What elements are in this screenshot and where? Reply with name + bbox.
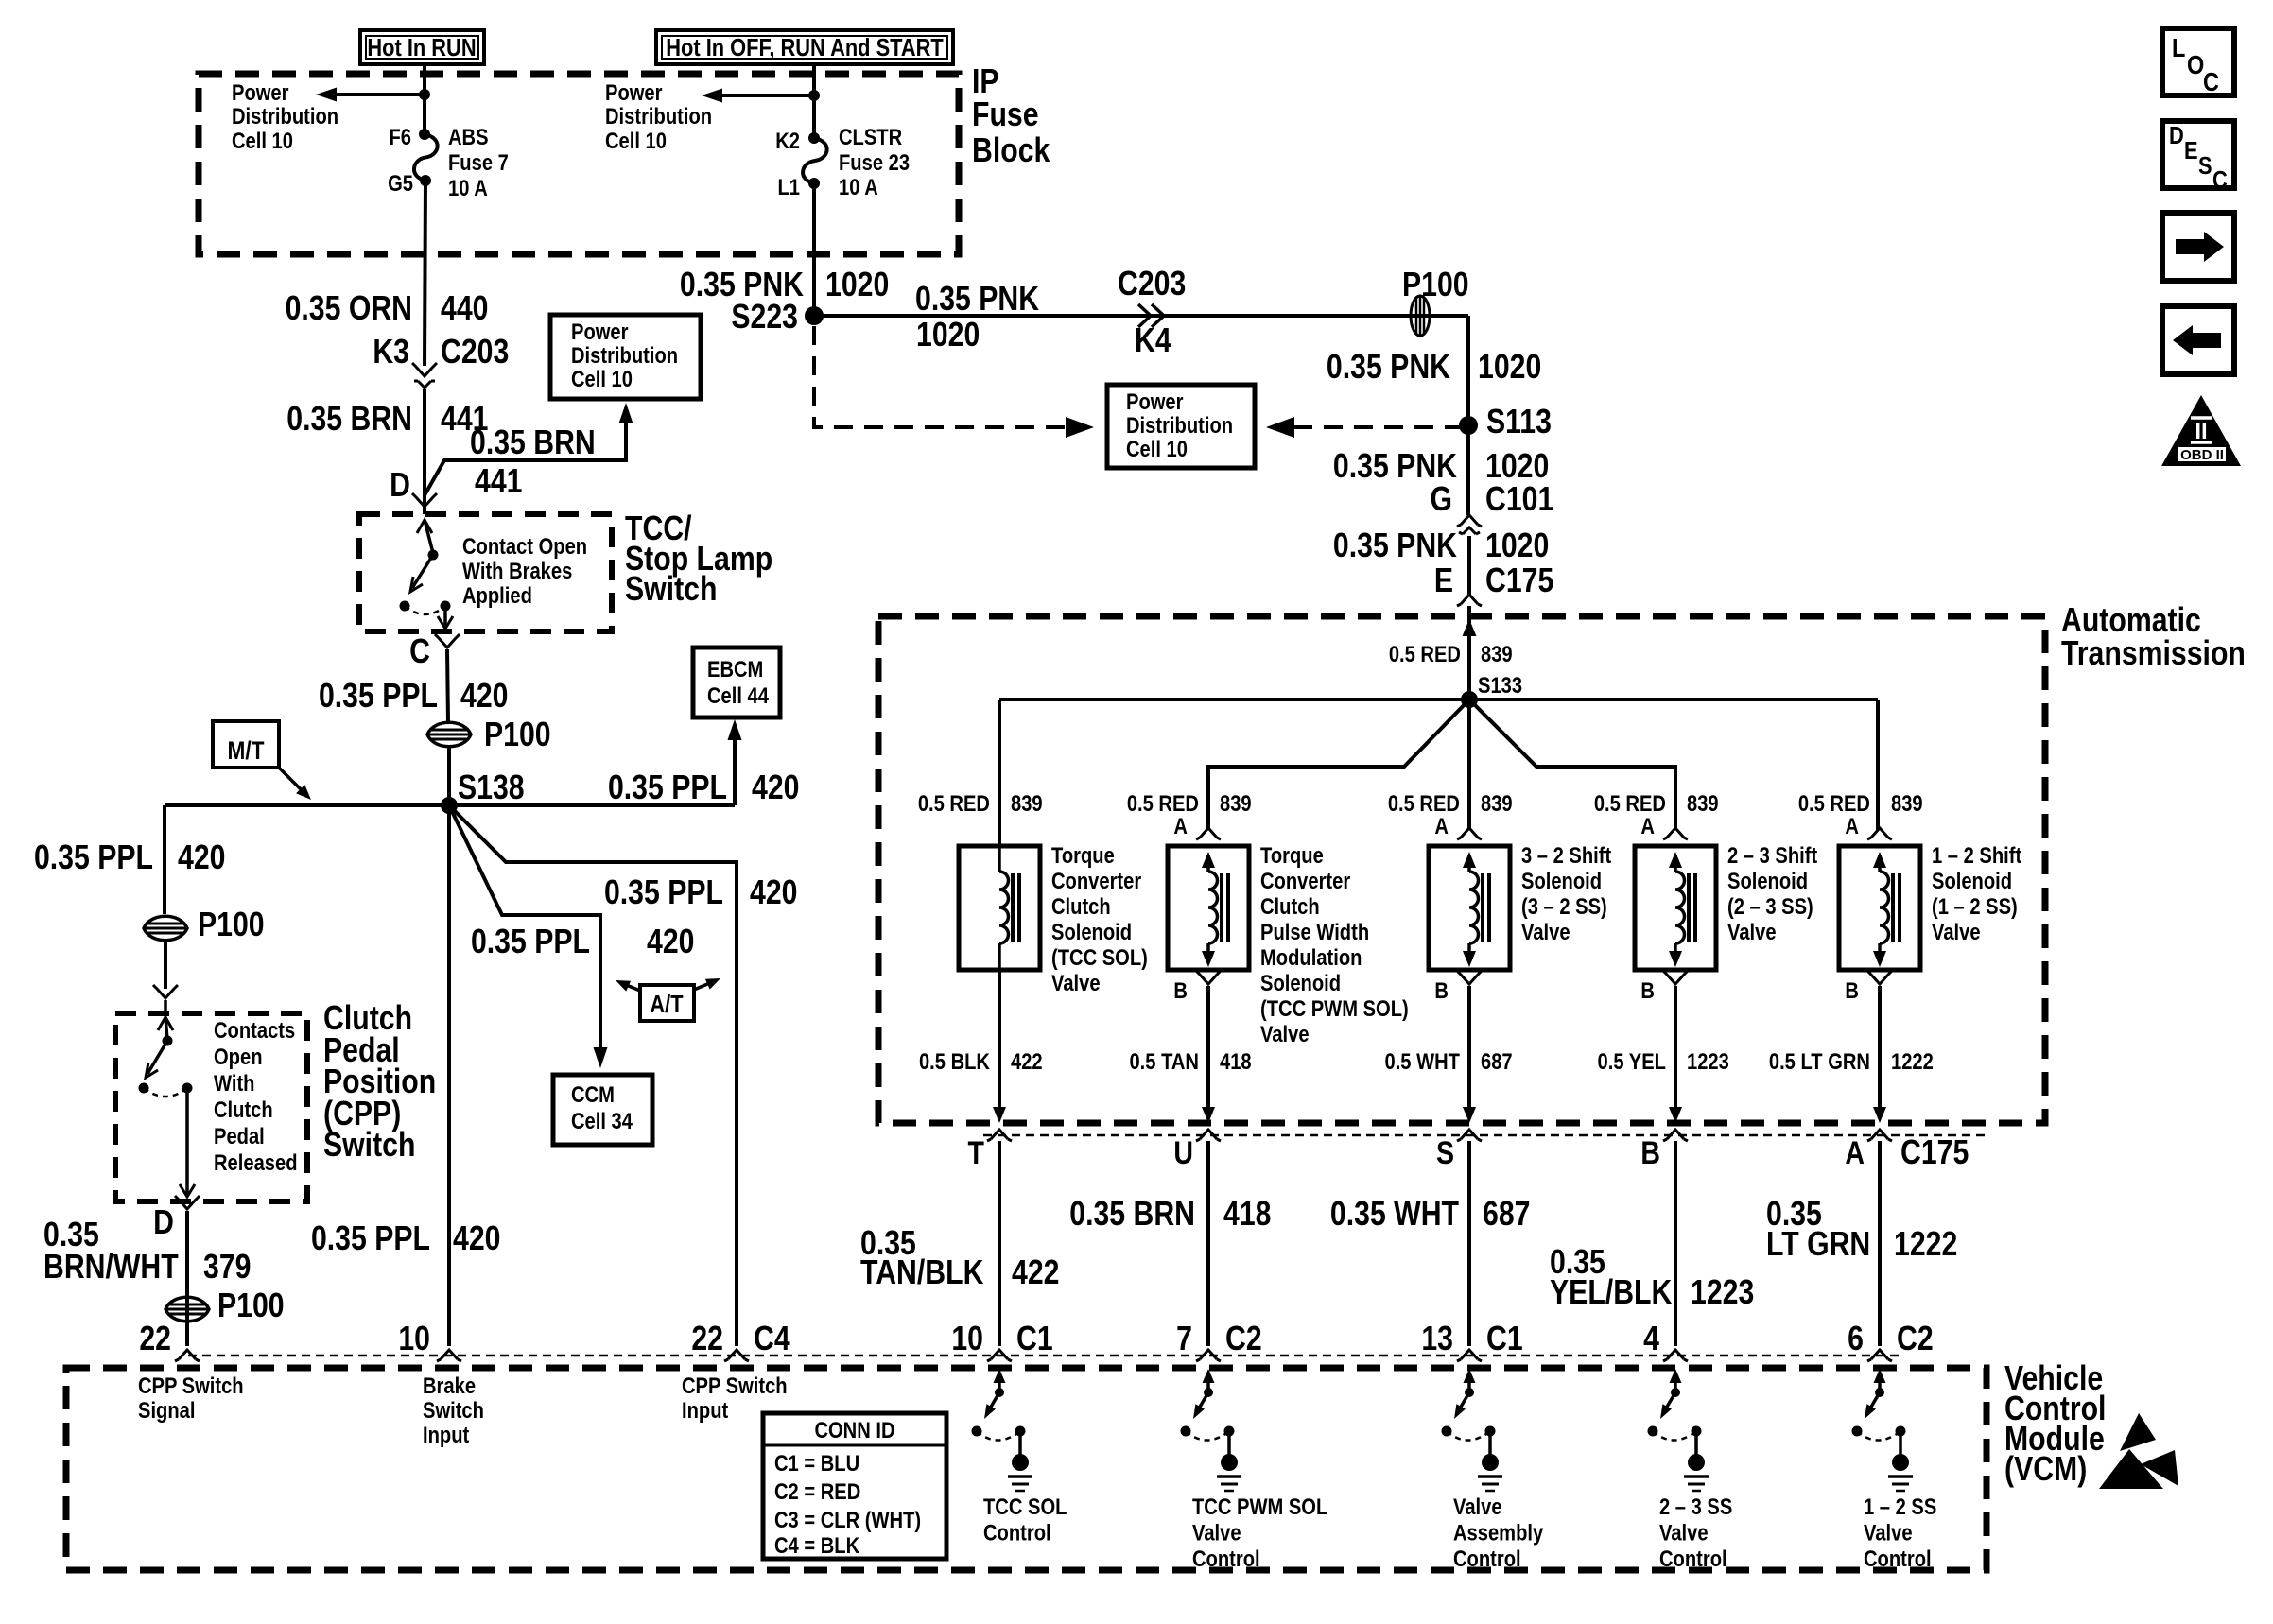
wire 839 RED entering transmission bbox=[1463, 606, 1477, 700]
svg-text:Solenoid: Solenoid bbox=[1727, 868, 1808, 893]
svg-text:Distribution: Distribution bbox=[571, 342, 678, 368]
connector pin C bbox=[409, 633, 460, 671]
CONN ID table bbox=[763, 1413, 946, 1559]
svg-text:0.35 PNK: 0.35 PNK bbox=[915, 281, 1039, 319]
wire label 0.35 LT GRN 1222 bbox=[1766, 1196, 1957, 1264]
transistor switch 1-2 SS Valve Control bbox=[1852, 1369, 1914, 1491]
svg-text:0.35 PPL: 0.35 PPL bbox=[604, 874, 723, 912]
svg-text:(VCM): (VCM) bbox=[2004, 1451, 2087, 1489]
svg-text:CPP Switch: CPP Switch bbox=[138, 1373, 244, 1398]
svg-text:LT GRN: LT GRN bbox=[1766, 1226, 1870, 1264]
wire label 0.5 RED 839 (col 1-2 SS) bbox=[1798, 790, 1923, 816]
svg-text:0.5 YEL: 0.5 YEL bbox=[1598, 1048, 1666, 1074]
svg-text:839: 839 bbox=[1220, 790, 1252, 816]
wire 1020 PNK horizontal bbox=[814, 314, 1468, 318]
svg-text:L: L bbox=[2172, 34, 2185, 62]
svg-text:A: A bbox=[1640, 813, 1655, 838]
svg-text:Contact Open: Contact Open bbox=[462, 533, 587, 559]
VCM pin row thin dashed line bbox=[188, 1355, 1900, 1357]
svg-text:D: D bbox=[390, 467, 410, 505]
svg-text:0.5 BLK: 0.5 BLK bbox=[919, 1048, 990, 1074]
svg-text:With Brakes: With Brakes bbox=[462, 558, 572, 583]
svg-text:TCC SOL: TCC SOL bbox=[983, 1494, 1067, 1519]
svg-text:Fuse 23: Fuse 23 bbox=[839, 149, 910, 175]
label C175 bbox=[1900, 1134, 1969, 1172]
pin B TCC PWM SOL bbox=[1173, 971, 1221, 1003]
svg-text:1020: 1020 bbox=[1478, 349, 1541, 387]
wire label 0.5 LT GRN 1222 bbox=[1769, 1048, 1934, 1074]
wire label 0.5 WHT 687 bbox=[1384, 1048, 1512, 1074]
connector C175 row thin dashed line bbox=[983, 1134, 1986, 1137]
svg-text:EBCM: EBCM bbox=[707, 656, 763, 682]
svg-text:418: 418 bbox=[1220, 1048, 1252, 1074]
svg-text:CONN ID: CONN ID bbox=[814, 1417, 894, 1443]
svg-text:Switch: Switch bbox=[625, 571, 717, 609]
svg-text:B: B bbox=[1434, 977, 1449, 1003]
svg-text:0.35 PPL: 0.35 PPL bbox=[34, 839, 153, 877]
wire U to VCM bbox=[1206, 1141, 1210, 1346]
svg-text:Power: Power bbox=[1126, 389, 1184, 414]
svg-text:C3 = CLR (WHT): C3 = CLR (WHT) bbox=[774, 1507, 921, 1532]
svg-text:CLSTR: CLSTR bbox=[839, 124, 902, 149]
svg-text:Valve: Valve bbox=[1521, 919, 1570, 944]
svg-text:Valve: Valve bbox=[1659, 1520, 1709, 1546]
wire 420 PPL left branch down bbox=[163, 805, 166, 914]
wire 379 BRN/WHT bbox=[185, 1211, 189, 1346]
svg-text:440: 440 bbox=[441, 290, 488, 328]
Automatic Transmission dashed box bbox=[878, 616, 2045, 1123]
svg-text:T: T bbox=[968, 1135, 984, 1171]
svg-text:4: 4 bbox=[1643, 1321, 1659, 1358]
wire A to VCM bbox=[1878, 1141, 1882, 1346]
connector C203 pin K3 bbox=[373, 334, 509, 388]
wire 1020 PNK from L1 to S223 bbox=[812, 183, 816, 316]
transistor switch Valve Assembly Control bbox=[1442, 1369, 1503, 1491]
svg-text:0.35 WHT: 0.35 WHT bbox=[1330, 1196, 1459, 1234]
svg-text:C: C bbox=[409, 633, 430, 671]
splice S113 bbox=[1459, 404, 1552, 441]
wire T to VCM bbox=[998, 1141, 1001, 1346]
svg-text:C175: C175 bbox=[1900, 1134, 1969, 1172]
switch CPP contacts bbox=[139, 1017, 196, 1197]
wire B to VCM bbox=[1674, 1141, 1677, 1346]
svg-text:Solenoid: Solenoid bbox=[1260, 970, 1341, 995]
wire branch 441 BRN to Power Distribution bbox=[425, 403, 633, 495]
wire label 0.35 BRN 441 bbox=[286, 401, 488, 439]
wire label 0.5 RED 839 (col 2-3 SS) bbox=[1594, 790, 1719, 816]
pin 22 CPP signal bbox=[139, 1321, 171, 1358]
svg-text:Modulation: Modulation bbox=[1260, 944, 1362, 970]
label 1-2 SS description bbox=[1932, 842, 2022, 944]
svg-text:Fuse: Fuse bbox=[972, 96, 1039, 134]
svg-text:7: 7 bbox=[1176, 1321, 1192, 1358]
wire label 0.35 ORN 440 bbox=[286, 290, 489, 328]
wire label 0.35 BRN 418 bbox=[1069, 1196, 1271, 1234]
Vehicle Control Module dashed box bbox=[66, 1368, 1987, 1570]
connector P100 inline (BRN/WHT) bbox=[165, 1287, 285, 1325]
svg-text:Valve: Valve bbox=[1727, 919, 1777, 944]
svg-text:Torque: Torque bbox=[1260, 842, 1324, 868]
svg-text:418: 418 bbox=[1223, 1196, 1271, 1234]
node CCM Cell 34 box bbox=[553, 1075, 652, 1145]
svg-text:Valve: Valve bbox=[1051, 970, 1101, 995]
svg-text:0.35 ORN: 0.35 ORN bbox=[286, 290, 412, 328]
svg-text:TAN/BLK: TAN/BLK bbox=[860, 1254, 983, 1292]
wire label 0.35 TAN/BLK 422 bbox=[860, 1225, 1059, 1292]
wire arrow to Power Distribution left bbox=[316, 88, 425, 102]
icon arrow left bbox=[2162, 306, 2234, 374]
connector pin 6 (1-2 SS Valve Control) bbox=[1848, 1321, 1933, 1361]
icon OBD II triangle bbox=[2161, 395, 2241, 466]
solenoid TCC SOL bbox=[959, 846, 1040, 970]
wire 1-2 SS to C175 bbox=[1873, 986, 1886, 1123]
svg-text:Control: Control bbox=[1864, 1546, 1932, 1571]
connector pin 4 (2-3 SS Valve Control) bbox=[1643, 1321, 1688, 1361]
wire from Hot In RUN into fuse block bbox=[423, 64, 426, 134]
svg-text:Converter: Converter bbox=[1260, 868, 1351, 893]
svg-text:Cell 10: Cell 10 bbox=[1126, 436, 1188, 461]
pin F6 bbox=[389, 124, 411, 149]
svg-text:S133: S133 bbox=[1478, 672, 1522, 698]
connector chevron pin 10 brake bbox=[398, 1321, 461, 1361]
wire label 0.5 RED 839 (col TCC PWM SOL) bbox=[1127, 790, 1252, 816]
connector P100 inline bbox=[427, 717, 551, 754]
svg-text:C175: C175 bbox=[1485, 562, 1553, 600]
ground (1-2 SS Valve Control) label bbox=[1864, 1494, 1936, 1571]
node Power Distribution Cell 10 (left) bbox=[232, 79, 338, 153]
svg-text:Control: Control bbox=[1659, 1546, 1727, 1571]
connector pin 13 (Valve Assembly Control) bbox=[1421, 1321, 1522, 1361]
svg-text:S113: S113 bbox=[1486, 404, 1552, 441]
svg-text:0.35 PNK: 0.35 PNK bbox=[1327, 349, 1450, 387]
svg-text:Power: Power bbox=[605, 79, 663, 105]
svg-text:L1: L1 bbox=[777, 174, 800, 199]
svg-text:1222: 1222 bbox=[1891, 1048, 1934, 1074]
wire 1020 PNK to C175 bbox=[1467, 536, 1471, 595]
node EBCM Cell 44 box bbox=[693, 648, 780, 717]
VCM title bbox=[2004, 1360, 2106, 1489]
svg-text:3 – 2 Shift: 3 – 2 Shift bbox=[1521, 842, 1612, 868]
connector pin 10 (TCC SOL Control) bbox=[951, 1321, 1052, 1361]
switch TCC stop lamp contacts bbox=[400, 520, 454, 629]
solenoid 1-2 SS bbox=[1839, 846, 1920, 970]
junction dot right feed bbox=[808, 90, 820, 101]
svg-text:0.35 PPL: 0.35 PPL bbox=[471, 924, 590, 961]
svg-text:A: A bbox=[1173, 813, 1188, 838]
icon LOC bbox=[2162, 28, 2234, 96]
svg-text:687: 687 bbox=[1481, 1048, 1513, 1074]
svg-text:379: 379 bbox=[203, 1249, 251, 1287]
svg-text:0.5 RED: 0.5 RED bbox=[1388, 790, 1460, 816]
svg-text:E: E bbox=[1434, 562, 1453, 600]
wire to TCC SOL bbox=[998, 700, 1001, 846]
connector chevron pin 22 C4 bbox=[691, 1321, 790, 1361]
svg-text:TCC PWM SOL: TCC PWM SOL bbox=[1192, 1494, 1327, 1519]
svg-text:Control: Control bbox=[1192, 1546, 1260, 1571]
svg-text:(1 – 2 SS): (1 – 2 SS) bbox=[1932, 893, 2018, 919]
svg-text:Converter: Converter bbox=[1051, 868, 1142, 893]
connector pin 7 (TCC PWM SOL Valve Control) bbox=[1176, 1321, 1261, 1361]
svg-text:C101: C101 bbox=[1485, 481, 1553, 519]
svg-text:Transmission: Transmission bbox=[2061, 635, 2246, 673]
ground (2-3 SS Valve Control) label bbox=[1659, 1494, 1732, 1571]
svg-text:0.35 BRN: 0.35 BRN bbox=[1069, 1196, 1195, 1234]
svg-text:A/T: A/T bbox=[650, 991, 683, 1018]
svg-text:A: A bbox=[1434, 813, 1449, 838]
connector P100 inline (left) bbox=[144, 907, 265, 944]
svg-text:0.5 WHT: 0.5 WHT bbox=[1384, 1048, 1460, 1074]
node Power Distribution Cell 10 box (right solid) bbox=[1107, 385, 1255, 468]
Automatic Transmission title bbox=[2061, 602, 2246, 673]
fuse label ABS Fuse 7 10 A bbox=[448, 124, 509, 200]
icon DESC bbox=[2162, 121, 2234, 194]
pin B 2-3 SS bbox=[1640, 971, 1688, 1003]
svg-text:Input: Input bbox=[682, 1397, 729, 1423]
wire into CPP switch bbox=[164, 941, 167, 989]
svg-text:B: B bbox=[1640, 1135, 1660, 1171]
svg-text:P100: P100 bbox=[217, 1287, 285, 1325]
svg-text:Switch: Switch bbox=[323, 1127, 415, 1165]
svg-text:G5: G5 bbox=[388, 170, 413, 196]
wire label 0.35 PNK 1020 (S223) bbox=[680, 267, 889, 304]
svg-text:P100: P100 bbox=[198, 907, 265, 944]
svg-text:CCM: CCM bbox=[571, 1081, 615, 1107]
connector pin D (CPP output) bbox=[153, 1196, 200, 1242]
wire label 0.35 BRN 441 (branch) bbox=[470, 424, 596, 501]
wire 420 PPL main down to VCM pin 10 bbox=[447, 805, 451, 1346]
wire S to VCM bbox=[1467, 1141, 1471, 1346]
svg-text:Pedal: Pedal bbox=[214, 1123, 265, 1149]
svg-text:S138: S138 bbox=[458, 769, 525, 807]
svg-text:1223: 1223 bbox=[1687, 1048, 1729, 1074]
svg-text:B: B bbox=[1173, 977, 1188, 1003]
wire label 0.35 PNK 1020 (below S113) bbox=[1333, 448, 1549, 486]
svg-text:K2: K2 bbox=[775, 128, 800, 153]
svg-text:Brake: Brake bbox=[423, 1373, 476, 1398]
svg-text:0.5 RED: 0.5 RED bbox=[918, 790, 990, 816]
wire label 0.5 RED 839 (col 3-2 SS) bbox=[1388, 790, 1513, 816]
label 2-3 SS description bbox=[1727, 842, 1818, 944]
svg-text:F6: F6 bbox=[389, 124, 411, 149]
svg-text:2 – 3 Shift: 2 – 3 Shift bbox=[1727, 842, 1818, 868]
svg-text:C: C bbox=[2212, 166, 2228, 194]
wire 441 BRN bbox=[423, 389, 426, 514]
transistor switch TCC SOL Control bbox=[972, 1369, 1033, 1491]
svg-text:Solenoid: Solenoid bbox=[1051, 919, 1132, 944]
wire S138 branch to CPP switch input C4-22 bbox=[449, 805, 737, 1346]
svg-text:C1: C1 bbox=[1486, 1321, 1523, 1358]
svg-text:Power: Power bbox=[232, 79, 289, 105]
svg-text:0.5 LT GRN: 0.5 LT GRN bbox=[1769, 1048, 1870, 1074]
wire 420 PPL to EBCM bbox=[728, 719, 742, 805]
svg-text:22: 22 bbox=[691, 1321, 723, 1358]
wire label 0.35 PPL 420 (left) bbox=[34, 839, 225, 877]
IP Fuse Block title bbox=[972, 63, 1050, 170]
svg-text:A: A bbox=[1845, 813, 1859, 838]
svg-text:C4 = BLK: C4 = BLK bbox=[774, 1532, 859, 1558]
svg-text:839: 839 bbox=[1891, 790, 1923, 816]
svg-text:C1 = BLU: C1 = BLU bbox=[774, 1450, 859, 1476]
svg-text:Cell 34: Cell 34 bbox=[571, 1108, 633, 1133]
svg-text:0.5 RED: 0.5 RED bbox=[1127, 790, 1199, 816]
transistor switch TCC PWM SOL Valve Control bbox=[1181, 1369, 1242, 1491]
wire to 1-2 SS bbox=[1876, 700, 1880, 830]
svg-text:Released: Released bbox=[214, 1149, 298, 1175]
svg-text:Cell 10: Cell 10 bbox=[232, 128, 293, 153]
pin A 3-2 SS bbox=[1434, 813, 1482, 839]
VCM input CPP Switch Signal bbox=[138, 1373, 244, 1423]
ground (TCC PWM SOL Valve Control) label bbox=[1192, 1494, 1327, 1571]
svg-text:C203: C203 bbox=[1118, 266, 1186, 303]
svg-text:Input: Input bbox=[423, 1422, 470, 1447]
svg-text:0.5 TAN: 0.5 TAN bbox=[1129, 1048, 1199, 1074]
connector C175 pin U bbox=[1173, 1130, 1221, 1171]
wire to splice S138 bbox=[447, 747, 451, 805]
svg-text:Block: Block bbox=[972, 132, 1050, 170]
svg-text:0.35 PNK: 0.35 PNK bbox=[1333, 527, 1457, 565]
TCC Stop Lamp Switch dashed box bbox=[359, 514, 612, 631]
svg-text:Distribution: Distribution bbox=[232, 103, 338, 129]
wire label 0.35 BRN/WHT 379 bbox=[43, 1217, 251, 1287]
solenoid 2-3 SS bbox=[1635, 846, 1716, 970]
node M/T tag bbox=[213, 721, 311, 800]
svg-text:839: 839 bbox=[1687, 790, 1719, 816]
svg-text:0.5 RED: 0.5 RED bbox=[1389, 641, 1461, 666]
wire 440 ORN from fuse G5 down bbox=[425, 181, 425, 366]
connector C175 pin S bbox=[1436, 1130, 1482, 1171]
wire S138 branch to CCM bbox=[449, 805, 608, 1068]
wire label 0.35 PPL 420 (brake switch input) bbox=[311, 1220, 500, 1258]
svg-text:10 A: 10 A bbox=[448, 175, 488, 200]
svg-text:Distribution: Distribution bbox=[1126, 412, 1233, 438]
svg-text:Contacts: Contacts bbox=[214, 1017, 295, 1043]
svg-text:0.35 BRN: 0.35 BRN bbox=[286, 401, 412, 439]
node Hot In RUN label box bbox=[360, 30, 484, 64]
splice S133 bbox=[1461, 672, 1522, 708]
solenoid 3-2 SS bbox=[1429, 846, 1510, 970]
svg-text:1020: 1020 bbox=[916, 317, 980, 354]
svg-text:Solenoid: Solenoid bbox=[1932, 868, 2012, 893]
svg-text:Clutch: Clutch bbox=[214, 1097, 273, 1122]
svg-text:C: C bbox=[2203, 68, 2219, 96]
pin A TCC PWM SOL bbox=[1173, 813, 1221, 839]
svg-text:0.5 RED: 0.5 RED bbox=[1594, 790, 1666, 816]
wire 1020 PNK below S113 bbox=[1466, 425, 1470, 515]
ground (Valve Assembly Control) label bbox=[1453, 1494, 1544, 1571]
svg-text:Valve: Valve bbox=[1453, 1494, 1502, 1519]
pin A 2-3 SS bbox=[1640, 813, 1688, 839]
svg-text:C4: C4 bbox=[754, 1321, 790, 1358]
svg-text:(3 – 2 SS): (3 – 2 SS) bbox=[1521, 893, 1607, 919]
svg-text:1222: 1222 bbox=[1894, 1226, 1957, 1264]
svg-text:ABS: ABS bbox=[448, 124, 489, 149]
wire S138 horizontal to EBCM riser bbox=[165, 803, 735, 807]
svg-text:C2: C2 bbox=[1225, 1321, 1262, 1358]
svg-text:1020: 1020 bbox=[1485, 527, 1549, 565]
connector C175 pin E bbox=[1434, 562, 1553, 606]
svg-text:6: 6 bbox=[1848, 1321, 1864, 1358]
wire label 0.35 PPL 420 (branch C4) bbox=[604, 874, 797, 912]
Clutch Pedal Position switch dashed box bbox=[115, 1013, 307, 1201]
svg-text:M/T: M/T bbox=[227, 736, 264, 765]
node A/T tag bbox=[616, 978, 720, 1021]
svg-text:Valve: Valve bbox=[1260, 1021, 1310, 1046]
wire label 0.5 RED 839 (col TCC SOL) bbox=[918, 790, 1043, 816]
pin G5 bbox=[388, 170, 413, 196]
svg-text:Fuse 7: Fuse 7 bbox=[448, 149, 509, 175]
svg-text:Control: Control bbox=[983, 1520, 1051, 1546]
svg-text:II: II bbox=[2195, 419, 2207, 444]
svg-text:839: 839 bbox=[1011, 790, 1043, 816]
svg-text:Signal: Signal bbox=[138, 1397, 195, 1423]
splice S223 bbox=[731, 299, 824, 337]
svg-text:A: A bbox=[1845, 1135, 1865, 1171]
svg-text:Open: Open bbox=[214, 1044, 263, 1069]
svg-text:Distribution: Distribution bbox=[605, 103, 712, 129]
svg-text:10: 10 bbox=[951, 1321, 983, 1358]
svg-text:839: 839 bbox=[1481, 790, 1513, 816]
svg-text:420: 420 bbox=[178, 839, 225, 877]
fuse Fuse 23 CLSTR 10A bbox=[803, 132, 827, 189]
TCC Stop Lamp Switch title bbox=[625, 510, 772, 609]
wire label 0.35 PPL 420 bbox=[319, 678, 508, 716]
connector pin D bbox=[390, 467, 437, 507]
IP Fuse Block dashed box bbox=[199, 74, 959, 254]
svg-text:Power: Power bbox=[571, 319, 629, 344]
label 3-2 SS description bbox=[1521, 842, 1612, 944]
connector C203 pin K4 (pass-through) bbox=[1118, 266, 1186, 360]
svg-text:420: 420 bbox=[647, 924, 694, 961]
wire S133 bus horizontal bbox=[999, 698, 1878, 701]
fuse label CLSTR Fuse 23 10 A bbox=[839, 124, 910, 199]
wire label 0.5 BLK 422 bbox=[919, 1048, 1043, 1074]
svg-text:1020: 1020 bbox=[825, 267, 889, 304]
svg-text:441: 441 bbox=[475, 463, 522, 501]
wire label 0.5 TAN 418 bbox=[1129, 1048, 1251, 1074]
svg-text:0.35 PPL: 0.35 PPL bbox=[608, 769, 727, 807]
svg-text:C2 = RED: C2 = RED bbox=[774, 1478, 860, 1504]
junction dot left feed bbox=[419, 89, 430, 100]
VCM input CPP Switch Input bbox=[682, 1373, 788, 1423]
svg-text:10 A: 10 A bbox=[839, 174, 878, 199]
transistor switch 2-3 SS Valve Control bbox=[1648, 1369, 1709, 1491]
ESD symbol bbox=[2099, 1413, 2178, 1489]
svg-text:839: 839 bbox=[1481, 641, 1513, 666]
svg-text:1 – 2 Shift: 1 – 2 Shift bbox=[1932, 842, 2022, 868]
svg-text:(TCC SOL): (TCC SOL) bbox=[1051, 944, 1148, 970]
wire label 0.35 PNK 1020 (horizontal) bbox=[915, 281, 1039, 354]
icon arrow right bbox=[2162, 213, 2234, 281]
svg-text:O: O bbox=[2187, 51, 2204, 79]
switch annotation Contact Open With Brakes Applied bbox=[462, 533, 587, 608]
svg-text:422: 422 bbox=[1012, 1254, 1059, 1292]
wire TCC SOL to C175 bbox=[993, 970, 1006, 1123]
connector chevron into CPP bbox=[153, 985, 178, 998]
wire from Hot In OFF into fuse block bbox=[812, 64, 816, 138]
svg-text:U: U bbox=[1173, 1135, 1193, 1171]
CPP switch title bbox=[323, 1000, 436, 1165]
wire 3-2 SS to C175 bbox=[1463, 986, 1476, 1123]
svg-text:Valve: Valve bbox=[1864, 1520, 1913, 1546]
svg-text:C203: C203 bbox=[441, 334, 509, 371]
connector C175 pin B bbox=[1640, 1130, 1688, 1171]
svg-text:(2 – 3 SS): (2 – 3 SS) bbox=[1727, 893, 1813, 919]
ground (TCC SOL Control) label bbox=[983, 1494, 1067, 1546]
svg-text:22: 22 bbox=[139, 1321, 171, 1358]
splice S138 bbox=[441, 769, 525, 814]
svg-text:C2: C2 bbox=[1897, 1321, 1934, 1358]
pin L1 bbox=[777, 174, 800, 199]
